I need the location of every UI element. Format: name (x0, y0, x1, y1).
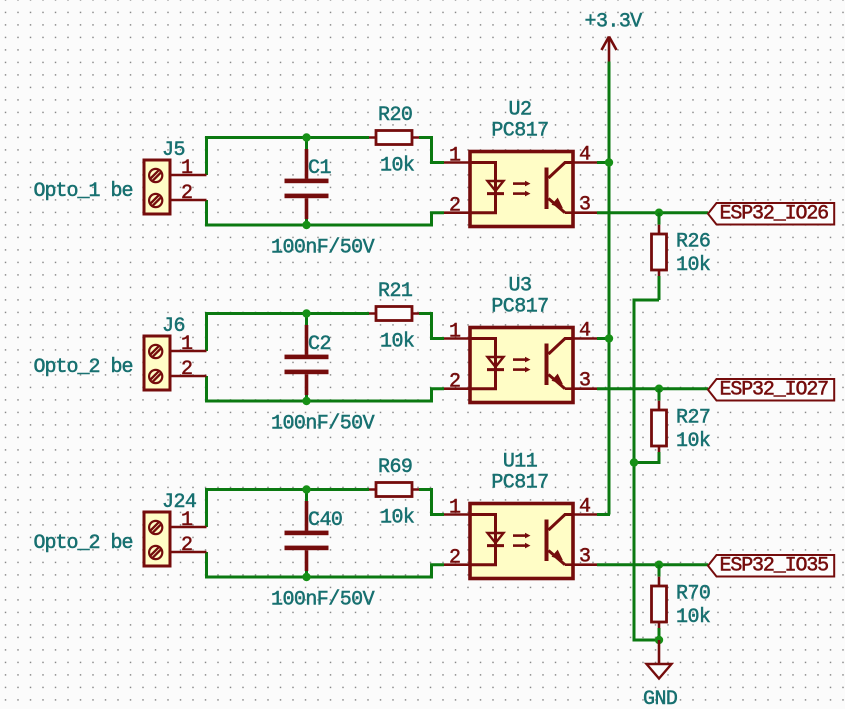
wire: U3 pin 3 to ESP32_IO27 label (597, 387, 708, 390)
capacitor C1 100nF/50V (305, 149, 309, 179)
wire: top rail net J6.1/C2/R21 section 2 (205, 312, 208, 351)
svg-text:2: 2 (449, 371, 460, 394)
node: C top junction section 2 (302, 309, 310, 317)
svg-text:R69: R69 (378, 456, 412, 479)
LED inside U11 (470, 515, 496, 546)
connector J24 screw terminal (144, 512, 170, 566)
svg-text:2: 2 (449, 547, 460, 570)
svg-text:10k: 10k (380, 507, 414, 530)
light arrows inside U11 (513, 534, 525, 537)
node: C bottom junction section 2 (302, 397, 310, 405)
node: C top junction section 3 (302, 485, 310, 493)
svg-text:100nF/50V: 100nF/50V (271, 237, 375, 260)
wire: C2 top stub (305, 314, 308, 326)
svg-text:+3.3V: +3.3V (585, 11, 643, 34)
svg-text:10k: 10k (676, 254, 710, 277)
svg-text:3: 3 (579, 194, 590, 217)
wire: bottom rail net J24.2/C40 section 3 (205, 552, 208, 579)
svg-text:2: 2 (449, 195, 460, 218)
node: C bottom junction section 3 (302, 573, 310, 581)
pin 2 of U2 (444, 211, 470, 214)
svg-text:2: 2 (181, 182, 192, 205)
LED inside U2 (470, 163, 496, 194)
svg-text:Opto_2 be: Opto_2 be (34, 356, 133, 379)
wire: C1 top stub (305, 138, 308, 150)
wire: R69 right to U11 pin 1 (419, 490, 444, 515)
resistor R70 10k pull-up (658, 565, 661, 577)
svg-text:3: 3 (579, 370, 590, 393)
svg-text:C2: C2 (308, 333, 331, 356)
wire: U2 pin 4 to +3.3V rail (597, 161, 610, 164)
connector J5 screw terminal (144, 160, 170, 214)
capacitor C2 100nF/50V (305, 325, 309, 355)
svg-text:R20: R20 (378, 104, 412, 127)
svg-text:PC817: PC817 (491, 296, 548, 319)
wire: top rail net J5.1/C1/R20 section 1 (205, 136, 208, 175)
wire: R20 right to U2 pin 1 (419, 138, 444, 163)
svg-text:3: 3 (579, 546, 590, 569)
wire: bottom rail net J6.2/C2 section 2 (205, 376, 208, 403)
wire: C40 bottom stub (305, 571, 308, 577)
op-amp optocoupler U2 PC817 (470, 152, 573, 227)
pin 3 of U11 (565, 563, 597, 566)
svg-text:Opto_1 be: Opto_1 be (34, 180, 133, 203)
wire: R26 bottom to GND rail (658, 276, 661, 300)
pin 2 of J6 (171, 375, 207, 378)
svg-text:1: 1 (449, 145, 461, 168)
svg-text:PC817: PC817 (491, 472, 548, 495)
light arrows inside U3 (513, 358, 525, 361)
light arrows inside U2 (513, 182, 525, 185)
svg-text:1: 1 (449, 497, 461, 520)
transistor inside U3 (545, 344, 549, 386)
pin 4 of U2 (573, 161, 597, 164)
node: C bottom junction section 1 (302, 221, 310, 229)
resistor R20 10k (369, 136, 419, 139)
svg-text:100nF/50V: 100nF/50V (271, 589, 375, 612)
node: C top junction section 1 (302, 133, 310, 141)
wire: R70 bottom to GND node (658, 628, 661, 640)
svg-text:1: 1 (181, 333, 193, 356)
wire: C40 top stub (305, 490, 308, 502)
svg-text:U3: U3 (509, 275, 532, 298)
pin 1 of J6 (171, 350, 207, 353)
svg-text:GND: GND (643, 688, 677, 709)
connector J6 screw terminal (144, 336, 170, 390)
pin 2 of J5 (171, 199, 207, 202)
node: junction R70 / ESP32 net (655, 561, 663, 569)
op-amp optocoupler U11 PC817 (470, 504, 573, 579)
node: R27 to GND rail (630, 458, 638, 466)
svg-text:ESP32_IO35: ESP32_IO35 (720, 555, 829, 578)
svg-text:1: 1 (181, 509, 193, 532)
wire: top rail net J24.1/C40/R69 section 3 (205, 488, 208, 527)
capacitor C40 100nF/50V (305, 501, 309, 531)
pin 2 of J24 (171, 551, 207, 554)
resistor R27 10k pull-up (658, 389, 661, 401)
wire: U11 pin 3 to ESP32_IO35 label (597, 563, 708, 566)
resistor R26 10k pull-up (658, 213, 661, 225)
op-amp optocoupler U3 PC817 (470, 328, 573, 403)
svg-text:PC817: PC817 (491, 120, 548, 143)
wire: bottom rail net J5.2/C1 section 1 (205, 200, 208, 227)
svg-text:R26: R26 (676, 231, 710, 254)
node: junction R26 / ESP32 net (655, 209, 663, 217)
wire: C2 bottom stub (305, 395, 308, 401)
svg-text:4: 4 (579, 496, 590, 519)
svg-text:ESP32_IO26: ESP32_IO26 (720, 203, 829, 226)
wire: GND vertical rail (634, 300, 659, 640)
global label ESP32_IO27 (708, 379, 834, 401)
pin 3 of U3 (565, 387, 597, 390)
svg-text:R70: R70 (676, 583, 710, 606)
svg-text:C40: C40 (308, 509, 342, 532)
svg-text:1: 1 (181, 157, 193, 180)
svg-text:Opto_2 be: Opto_2 be (34, 532, 133, 555)
pin 4 of U11 (573, 513, 597, 516)
svg-text:2: 2 (181, 534, 192, 557)
global label ESP32_IO26 (708, 203, 834, 225)
svg-text:U11: U11 (503, 451, 538, 474)
pin 3 of U2 (565, 211, 597, 214)
transistor inside U11 (545, 520, 549, 562)
svg-text:ESP32_IO27: ESP32_IO27 (720, 379, 829, 402)
wire: U11 pin 4 to +3.3V rail (597, 513, 610, 516)
wire: R27 bottom to GND rail (634, 452, 659, 463)
resistor R21 10k (369, 312, 419, 315)
svg-text:1: 1 (449, 321, 461, 344)
svg-text:100nF/50V: 100nF/50V (271, 413, 375, 436)
node: junction R27 / ESP32 net (655, 385, 663, 393)
node: +3.3V to U2 pin 4 (605, 158, 613, 166)
svg-text:4: 4 (579, 320, 590, 343)
svg-text:R27: R27 (676, 407, 710, 430)
pin 4 of U3 (573, 337, 597, 340)
node: +3.3V to U3 pin 4 (605, 334, 613, 342)
wire: U3 pin 4 to +3.3V rail (597, 337, 610, 340)
wire: C1 bottom stub (305, 219, 308, 225)
svg-text:10k: 10k (676, 430, 710, 453)
node: GND junction (655, 636, 663, 644)
pin 1 of U3 (444, 337, 470, 340)
ground GND symbol (643, 640, 677, 709)
wire: U2 pin 3 to ESP32_IO26 label (597, 211, 708, 214)
resistor R69 10k (369, 488, 419, 491)
LED inside U3 (470, 339, 496, 370)
svg-text:C1: C1 (308, 157, 331, 180)
power +3.3V symbol (585, 11, 643, 64)
svg-text:10k: 10k (380, 155, 414, 178)
global label ESP32_IO35 (708, 555, 834, 577)
pin 1 of U2 (444, 161, 470, 164)
pin 2 of U3 (444, 387, 470, 390)
pin 1 of J5 (171, 174, 207, 177)
pin 1 of U11 (444, 513, 470, 516)
svg-text:4: 4 (579, 144, 590, 167)
svg-text:R21: R21 (378, 280, 413, 303)
pin 1 of J24 (171, 526, 207, 529)
wire: R21 right to U3 pin 1 (419, 314, 444, 339)
svg-text:10k: 10k (676, 606, 710, 629)
transistor inside U2 (545, 168, 549, 210)
svg-text:2: 2 (181, 358, 192, 381)
pin 2 of U11 (444, 563, 470, 566)
svg-text:10k: 10k (380, 331, 414, 354)
wire: +3.3V vertical rail (608, 62, 611, 515)
svg-text:U2: U2 (509, 99, 532, 122)
